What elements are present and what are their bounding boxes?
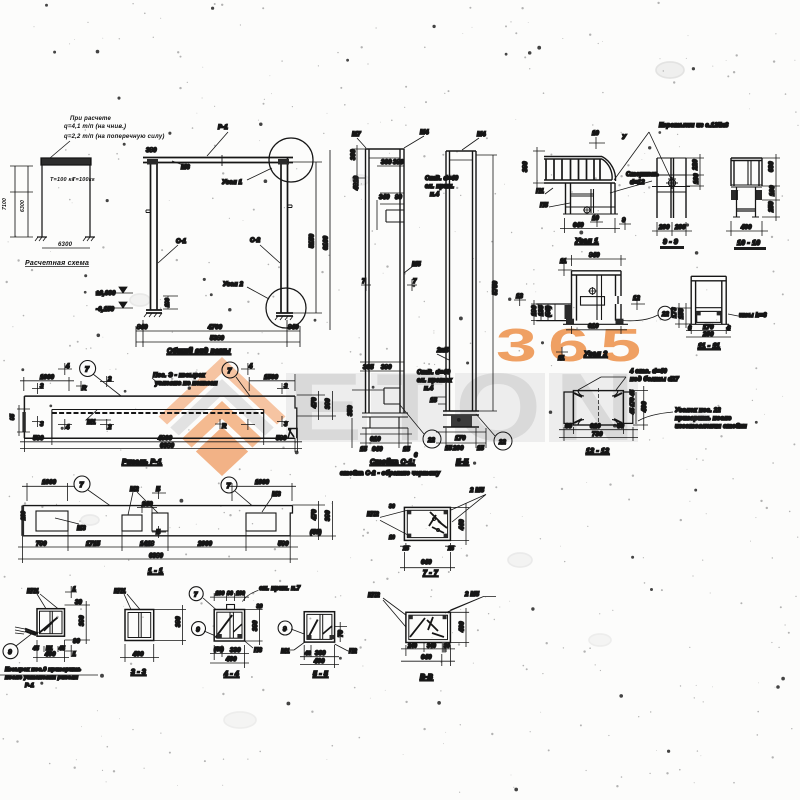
circle 7 leaders <box>93 374 121 396</box>
svg-text:190: 190 <box>165 298 171 307</box>
svg-text:90: 90 <box>227 591 233 597</box>
svg-text:КП1: КП1 <box>114 589 126 595</box>
svg-text:При расчете: При расчете <box>70 116 112 122</box>
svg-text:М2: М2 <box>130 487 139 493</box>
svg-text:2: 2 <box>107 425 112 431</box>
svg-text:390: 390 <box>523 161 529 172</box>
svg-text:Уголок поз. 22: Уголок поз. 22 <box>675 408 721 414</box>
dims bottom of frame <box>136 331 300 342</box>
svg-text:400: 400 <box>460 621 466 633</box>
svg-text:П5: П5 <box>540 203 549 209</box>
svg-text:12 - 12: 12 - 12 <box>586 448 609 455</box>
svg-text:В-В: В-В <box>420 674 433 681</box>
svg-text:стойка С-2 - обратно чертежу: стойка С-2 - обратно чертежу <box>340 470 441 477</box>
svg-text:13: 13 <box>516 294 524 300</box>
svg-text:ОтВ. d=40: ОтВ. d=40 <box>425 176 459 182</box>
svg-text:Т=100кг: Т=100кг <box>72 177 95 183</box>
top dim 1000 left <box>20 377 74 391</box>
svg-text:60: 60 <box>565 424 573 430</box>
base pads <box>566 319 574 325</box>
svg-text:60: 60 <box>617 424 625 430</box>
R marks <box>76 381 227 429</box>
козырек leader to text <box>152 378 206 385</box>
right end <box>295 396 297 438</box>
svg-text:9 - 9: 9 - 9 <box>663 239 678 246</box>
col1 top dims <box>352 145 366 182</box>
svg-text:q=4,1 т/п (на чнив.): q=4,1 т/п (на чнив.) <box>64 124 126 130</box>
svg-text:Поз. Э - козырек: Поз. Э - козырек <box>153 373 206 379</box>
svg-text:15: 15 <box>477 446 485 452</box>
svg-text:2: 2 <box>107 377 112 383</box>
svg-text:10 - 10: 10 - 10 <box>737 240 760 247</box>
svg-text:М4: М4 <box>477 132 486 138</box>
svg-text:400: 400 <box>642 401 648 413</box>
left end <box>23 396 25 438</box>
svg-text:У: У <box>622 135 627 141</box>
bases <box>146 310 293 316</box>
bottom dims <box>559 427 638 441</box>
svg-text:Узел 1: Узел 1 <box>222 180 243 186</box>
svg-text:390: 390 <box>393 160 404 166</box>
svg-text:95: 95 <box>10 414 16 420</box>
svg-text:-0,150: -0,150 <box>96 307 115 313</box>
svg-text:240: 240 <box>141 502 153 508</box>
svg-text:610: 610 <box>588 324 599 330</box>
svg-text:1: 1 <box>73 652 77 658</box>
svg-text:390: 390 <box>381 365 392 371</box>
svg-text:170: 170 <box>455 436 466 442</box>
svg-text:350: 350 <box>348 405 354 416</box>
svg-text:25: 25 <box>447 546 454 552</box>
bottom dim <box>566 326 627 334</box>
svg-text:400: 400 <box>225 657 237 663</box>
frame columns <box>42 165 90 237</box>
svg-text:840: 840 <box>288 325 299 331</box>
svg-text:Расчетная схема: Расчетная схема <box>25 260 89 267</box>
svg-text:6380: 6380 <box>149 554 164 560</box>
svg-text:условно не показан: условно не показан <box>154 381 218 387</box>
svg-text:6: 6 <box>688 326 692 332</box>
svg-text:70: 70 <box>339 629 345 637</box>
svg-text:(40): (40) <box>214 647 224 653</box>
svg-text:4800: 4800 <box>157 436 173 442</box>
svg-text:135: 135 <box>539 305 545 316</box>
svg-text:200: 200 <box>674 225 686 231</box>
right support bracket <box>288 428 297 438</box>
svg-text:5380: 5380 <box>210 336 225 342</box>
svg-text:590: 590 <box>278 542 289 548</box>
svg-text:30: 30 <box>444 644 450 650</box>
svg-text:22: 22 <box>427 438 436 444</box>
узел 2 circle <box>266 288 306 328</box>
column under <box>566 183 616 214</box>
узел 1 circle <box>269 138 313 182</box>
svg-text:5750: 5750 <box>493 280 499 295</box>
svg-text:q=2,2 т/п (на поперечную силу): q=2,2 т/п (на поперечную силу) <box>64 134 165 140</box>
11 tick <box>558 264 572 276</box>
right dim <box>633 386 648 430</box>
svg-text:±0,000: ±0,000 <box>96 291 116 297</box>
svg-text:Б: Б <box>156 487 161 493</box>
svg-text:Т=100 кг: Т=100 кг <box>50 177 75 183</box>
svg-text:3: 3 <box>40 422 44 428</box>
svg-text:220: 220 <box>693 159 699 171</box>
ribbed beam <box>544 157 615 184</box>
svg-text:1418: 1418 <box>140 542 155 548</box>
left dims <box>531 300 555 325</box>
svg-text:840: 840 <box>137 325 148 331</box>
svg-text:6300: 6300 <box>58 242 73 248</box>
12 tick right <box>631 298 645 310</box>
dim lines bottom <box>20 438 302 452</box>
svg-text:330: 330 <box>230 648 241 654</box>
inner plates <box>36 511 68 531</box>
svg-text:400: 400 <box>740 225 752 231</box>
svg-text:1 - 1: 1 - 1 <box>148 568 163 575</box>
bottom dims <box>560 218 620 233</box>
svg-text:КП2: КП2 <box>367 512 379 518</box>
svg-text:390: 390 <box>253 620 259 631</box>
svg-text:100: 100 <box>236 591 245 597</box>
top beam <box>143 158 293 163</box>
top dim 1500 right <box>249 374 295 391</box>
svg-text:470: 470 <box>312 397 318 409</box>
left column C-1 <box>151 163 158 311</box>
svg-text:7100: 7100 <box>2 198 8 210</box>
svg-text:КП1: КП1 <box>27 589 39 595</box>
svg-text:Стойка С-1;: Стойка С-1; <box>370 458 415 466</box>
circle 7 right <box>222 362 238 378</box>
svg-text:Козырек поз.9 приварить: Козырек поз.9 приварить <box>5 667 81 673</box>
Б marks <box>152 487 166 538</box>
bottom bracket М <box>384 388 400 404</box>
svg-text:изготовления стойки: изготовления стойки <box>675 423 747 430</box>
svg-text:190: 190 <box>532 305 538 316</box>
svg-text:640: 640 <box>421 655 432 661</box>
svg-text:М7: М7 <box>352 132 361 138</box>
svg-text:4700: 4700 <box>207 325 223 331</box>
hatched load bar <box>41 158 91 165</box>
svg-text:3 - 3: 3 - 3 <box>131 669 146 676</box>
svg-text:12: 12 <box>633 296 641 302</box>
beam top edge <box>24 395 295 397</box>
П1 П5 leaders <box>545 188 570 207</box>
svg-text:2 М5: 2 М5 <box>469 488 485 494</box>
2 ticks <box>100 376 114 430</box>
svg-text:365: 365 <box>363 365 374 371</box>
ground hatch at feet <box>35 237 94 241</box>
svg-text:1000: 1000 <box>255 480 270 486</box>
svg-text:2 М5: 2 М5 <box>464 592 480 598</box>
svg-text:400: 400 <box>44 652 56 658</box>
svg-text:90: 90 <box>395 195 403 201</box>
svg-text:М4: М4 <box>420 130 429 136</box>
top inner bracket <box>386 210 404 222</box>
svg-text:15: 15 <box>430 398 438 404</box>
10 tick top <box>589 137 605 149</box>
svg-text:(40): (40) <box>310 530 321 536</box>
svg-text:7: 7 <box>362 279 366 285</box>
svg-text:300: 300 <box>351 149 357 160</box>
svg-text:П6: П6 <box>254 648 263 654</box>
svg-text:10: 10 <box>389 535 395 541</box>
svg-text:КП2: КП2 <box>368 593 380 599</box>
svg-text:4 отв. d=40: 4 отв. d=40 <box>629 369 667 375</box>
svg-text:1000: 1000 <box>40 375 55 381</box>
svg-text:470: 470 <box>312 509 318 521</box>
svg-text:9: 9 <box>196 628 200 634</box>
top dim 840 <box>567 255 626 266</box>
svg-text:45 170 45: 45 170 45 <box>630 390 636 415</box>
svg-text:швы h=6: швы h=6 <box>739 313 767 319</box>
leader to text right <box>638 412 673 421</box>
bottom dims <box>18 531 298 563</box>
svg-text:365: 365 <box>496 320 652 372</box>
left dim 390 <box>533 147 545 188</box>
козырек end verticals <box>52 410 264 439</box>
svg-text:15: 15 <box>403 447 411 453</box>
svg-text:3: 3 <box>284 384 288 390</box>
bottom dims col1 <box>360 362 404 371</box>
svg-text:100: 100 <box>216 591 225 597</box>
svg-text:250: 250 <box>769 201 775 213</box>
leader to 22 <box>623 315 658 321</box>
svg-text:590: 590 <box>276 436 287 442</box>
svg-text:Ригель Р-1: Ригель Р-1 <box>122 459 162 466</box>
svg-text:9: 9 <box>622 218 626 224</box>
svg-text:90: 90 <box>73 639 81 645</box>
svg-text:5 - 5: 5 - 5 <box>313 671 328 678</box>
4 ticks <box>58 363 72 430</box>
leaders bolt text <box>578 377 626 390</box>
svg-text:400: 400 <box>132 652 144 658</box>
svg-text:п.4: п.4 <box>424 386 434 392</box>
svg-text:10: 10 <box>592 131 600 137</box>
svg-text:R: R <box>222 424 227 430</box>
svg-text:6380: 6380 <box>160 444 175 450</box>
svg-text:100: 100 <box>770 185 776 196</box>
right end vertical dims 470/390 <box>297 391 336 420</box>
svg-text:360: 360 <box>315 651 326 657</box>
svg-text:С-2: С-2 <box>250 238 261 244</box>
col1 circle 22 <box>423 430 441 448</box>
svg-text:6160: 6160 <box>324 235 330 250</box>
svg-text:30: 30 <box>389 504 395 510</box>
dim lines <box>15 166 28 237</box>
svg-text:390: 390 <box>326 398 332 409</box>
svg-text:6300: 6300 <box>20 200 26 212</box>
svg-text:640: 640 <box>573 223 584 229</box>
column small stubs <box>146 205 292 213</box>
козырек dashed <box>52 412 264 414</box>
svg-text:М5: М5 <box>412 262 421 268</box>
leaders to Коротыши <box>614 132 672 181</box>
svg-text:200: 200 <box>452 446 464 452</box>
svg-text:400: 400 <box>313 659 325 665</box>
svg-text:200: 200 <box>702 332 714 338</box>
right vertical dims <box>290 501 336 540</box>
svg-text:С-1: С-1 <box>176 239 187 245</box>
svg-text:d=12: d=12 <box>630 180 645 186</box>
frame bottom small dims <box>163 296 178 309</box>
svg-text:340: 340 <box>379 195 390 201</box>
svg-text:6: 6 <box>727 326 731 332</box>
240 dim <box>137 503 157 513</box>
svg-text:100: 100 <box>694 173 700 184</box>
svg-text:173: 173 <box>672 307 678 318</box>
right dims <box>287 150 330 330</box>
svg-text:610: 610 <box>370 437 381 443</box>
svg-text:М3: М3 <box>272 492 281 498</box>
level marks <box>113 287 133 308</box>
svg-text:9: 9 <box>283 627 287 633</box>
svg-text:П2: П2 <box>349 649 358 655</box>
svg-text:п.4: п.4 <box>430 192 440 198</box>
svg-text:М3: М3 <box>77 526 86 532</box>
svg-text:390: 390 <box>80 615 86 626</box>
svg-text:790: 790 <box>36 542 47 548</box>
svg-text:под болты d27: под болты d27 <box>630 376 679 383</box>
svg-text:3: 3 <box>284 422 288 428</box>
left small dims <box>17 405 30 436</box>
watermark logo diamond <box>142 320 652 560</box>
svg-text:150: 150 <box>679 308 685 319</box>
svg-text:11: 11 <box>560 259 567 265</box>
svg-text:200: 200 <box>658 225 670 231</box>
svg-text:Узел 2: Узел 2 <box>584 351 607 358</box>
curved end <box>602 157 616 182</box>
svg-text:4: 4 <box>65 425 70 431</box>
svg-text:Узел 2: Узел 2 <box>223 282 244 288</box>
svg-text:240: 240 <box>407 644 417 650</box>
svg-text:М1: М1 <box>87 420 96 426</box>
svg-text:1: 1 <box>73 587 77 593</box>
svg-text:2000: 2000 <box>197 542 213 548</box>
svg-text:440: 440 <box>460 519 466 531</box>
svg-text:Стержень: Стержень <box>626 172 659 178</box>
right end <box>290 506 292 536</box>
svg-text:1715: 1715 <box>86 542 101 548</box>
svg-text:630: 630 <box>769 161 775 172</box>
circle 7 <box>80 361 96 377</box>
М3 leaders <box>55 497 272 524</box>
svg-text:10: 10 <box>592 216 600 222</box>
svg-text:25: 25 <box>402 546 409 552</box>
svg-text:Р-1: Р-1 <box>25 683 34 689</box>
3 ticks <box>32 383 44 427</box>
svg-text:М6: М6 <box>181 165 190 171</box>
М1 leader <box>86 410 111 420</box>
7-7 cut marks <box>361 279 417 291</box>
svg-text:730: 730 <box>592 432 603 438</box>
svg-text:170: 170 <box>703 325 714 331</box>
svg-text:Б-Б: Б-Б <box>456 459 469 466</box>
svg-text:22: 22 <box>661 312 670 318</box>
svg-text:после установки ригеля: после установки ригеля <box>5 675 79 681</box>
svg-text:1500: 1500 <box>264 375 279 381</box>
circle leaders <box>88 490 252 506</box>
bolt <box>584 207 590 213</box>
svg-text:40: 40 <box>304 651 311 657</box>
svg-text:11: 11 <box>558 356 565 362</box>
svg-text:230: 230 <box>21 511 27 521</box>
svg-text:Коротыши из с.125х6: Коротыши из с.125х6 <box>659 123 729 129</box>
svg-text:Б: Б <box>156 530 161 536</box>
base ground hatch <box>144 313 293 320</box>
svg-text:сл. протек: сл. протек <box>417 378 453 384</box>
svg-text:7: 7 <box>194 593 198 599</box>
svg-text:4: 4 <box>248 364 253 370</box>
svg-text:7 - 7: 7 - 7 <box>423 570 439 577</box>
right column C-2 <box>281 158 288 314</box>
svg-text:R: R <box>82 386 87 392</box>
svg-text:11 - 11: 11 - 11 <box>698 343 720 350</box>
svg-text:30: 30 <box>75 600 83 606</box>
svg-text:см. прим. п.7: см. прим. п.7 <box>259 586 301 592</box>
svg-text:590: 590 <box>33 436 44 442</box>
svg-text:М1: М1 <box>281 649 290 655</box>
svg-text:15: 15 <box>445 446 453 452</box>
svg-text:22: 22 <box>498 440 507 446</box>
svg-text:4 - 4: 4 - 4 <box>223 671 239 678</box>
svg-text:30: 30 <box>257 604 263 610</box>
svg-text:7: 7 <box>413 279 417 285</box>
svg-text:Р-1: Р-1 <box>218 125 228 131</box>
svg-text:1000: 1000 <box>42 480 57 486</box>
svg-text:45: 45 <box>58 646 65 652</box>
svg-text:360: 360 <box>381 160 392 166</box>
svg-text:(90): (90) <box>546 306 552 317</box>
svg-text:840: 840 <box>589 253 600 259</box>
left beam stub <box>536 304 571 321</box>
col2 circle 22 <box>494 432 512 450</box>
svg-text:Узел 1: Узел 1 <box>575 238 598 245</box>
svg-text:4: 4 <box>65 364 70 370</box>
svg-text:2пБ: 2пБ <box>436 348 449 354</box>
svg-text:5150: 5150 <box>310 233 316 248</box>
svg-text:45: 45 <box>32 646 39 652</box>
label leaders <box>158 132 479 360</box>
svg-text:П1: П1 <box>536 189 545 195</box>
svg-text:640: 640 <box>421 560 432 566</box>
svg-text:390: 390 <box>326 510 332 521</box>
svg-text:9: 9 <box>8 650 12 656</box>
М2 leaders <box>128 492 158 515</box>
leader from note text <box>50 141 70 158</box>
svg-text:340: 340 <box>427 644 436 650</box>
svg-text:3: 3 <box>40 384 44 390</box>
base <box>362 413 408 428</box>
beam bottom edge <box>24 437 295 439</box>
svg-text:640: 640 <box>372 447 383 453</box>
svg-text:610: 610 <box>590 424 601 430</box>
svg-text:380: 380 <box>146 148 157 154</box>
svg-text:Общий вид рамы: Общий вид рамы <box>167 347 231 355</box>
svg-text:390: 390 <box>176 616 182 627</box>
svg-text:15: 15 <box>360 447 368 453</box>
top dim 1000 <box>22 483 74 501</box>
